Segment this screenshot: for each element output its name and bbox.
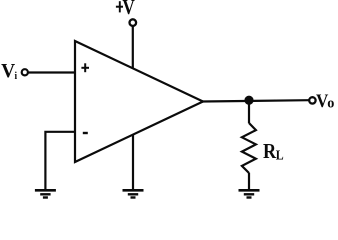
svg-text:R: R [263,140,277,163]
svg-text:o: o [327,95,334,111]
svg-text:V: V [122,0,135,20]
svg-text:i: i [15,70,18,82]
svg-text:L: L [276,148,284,163]
svg-text:V: V [1,60,15,82]
